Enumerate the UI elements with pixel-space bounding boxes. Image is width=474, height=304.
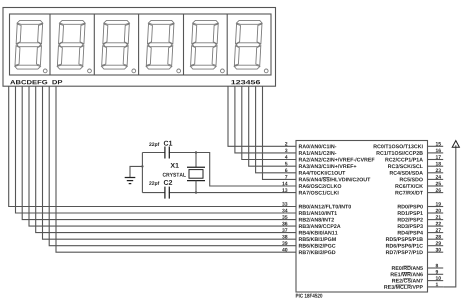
junction dot C1-crystal	[195, 151, 197, 153]
wire digit select 6 to RA5 pin 7	[263, 86, 297, 179]
7-seg digit 4	[146, 20, 180, 72]
digit cell divider 1	[49, 14, 51, 75]
wire C2 node to OSC1 pin 13	[142, 192, 296, 194]
7-seg digit 6	[234, 20, 268, 72]
digit cell divider 2	[93, 14, 95, 75]
capacitor C2	[165, 187, 169, 199]
wire segment B to RB1 pin 34	[16, 86, 297, 213]
pin 10 label RE2/CS/AN7 stub	[392, 276, 443, 282]
pin 23 label RC4/SDI/SDA stub	[390, 168, 443, 174]
pin 29 label RD6/PSP6/P1C stub	[386, 241, 443, 247]
7-seg digit 1	[15, 20, 47, 72]
digit cell divider 3	[138, 14, 140, 75]
wire digit select 5 to RA4 pin 6	[256, 86, 296, 173]
pin 8 label RE0/RD/AN5 stub	[392, 264, 443, 270]
pin 16 label RC1/T1OSI/CCP2B stub	[377, 149, 444, 155]
wire segment F to RB5 pin 38	[43, 86, 297, 239]
pin 2 label RA0/AN0/C1IN-	[285, 142, 336, 148]
pin 13 label RA7/OSC1/CLKI	[282, 188, 338, 194]
pin 9 label RE1/WR/AN6 stub	[391, 270, 444, 276]
wire segment E to RB4 pin 37	[36, 86, 296, 232]
pin 25 label RC6/TX/CK stub	[395, 182, 443, 188]
pin 24 label RC5/SDO stub	[400, 175, 443, 181]
pin 6 label RA4/T0CKI/C1OUT	[285, 168, 345, 174]
wire digit select 2 to RA1 pin 3	[235, 86, 296, 153]
wire left rail C1-C2	[141, 153, 143, 193]
digit cell divider 5	[226, 14, 228, 75]
pin 36 label RB3/AN9/CCP2A	[282, 222, 340, 228]
wire digit select 4 to RA3 pin 5	[249, 86, 296, 166]
pin 3 label RA1/AN1/C2IN-	[285, 149, 336, 155]
pin 15 label RC0/T1OSO/T13CKI stub	[374, 142, 444, 148]
pin 17 label RC2/CCP1/P1A stub	[385, 155, 443, 161]
label 123456	[231, 80, 260, 84]
pin 33 label RB0/AN12/FLT0/INT0	[282, 202, 351, 208]
pin 34 label RB1/AN10/INT1	[282, 209, 337, 215]
wire segment C to RB2 pin 35	[22, 86, 296, 219]
junction dot ground tap	[141, 165, 143, 167]
display digit area inner box	[10, 14, 272, 75]
pin 30 label RD7/PSP7/P1D stub	[386, 248, 443, 254]
pin 7 label RA5/AN4/SS/HLVDIN/C2OUT	[285, 175, 370, 181]
pin 37 label RB4/KBI0/AN11	[282, 228, 337, 234]
pin 38 label RB5/KBI1/PGM	[282, 235, 336, 241]
label ABCDEFG DP	[10, 80, 62, 84]
wire segment A to RB0 pin 33	[9, 86, 296, 206]
pin 22 label RD3/PSP3 stub	[398, 222, 443, 228]
crystal X1	[187, 153, 205, 193]
7-segment display module outer box	[3, 8, 276, 87]
wire segment D to RB3 pin 36	[29, 86, 296, 226]
pin 40 label RB7/KBI3/PGD	[282, 248, 335, 254]
wire digit select 1 to RA0 pin 2	[228, 86, 296, 146]
wire segment G to RB6 pin 39	[49, 86, 296, 246]
pin 28 label RD5/PSP5/P1B stub	[386, 235, 443, 241]
pin 35 label RB2/AN8/INT2	[282, 215, 334, 221]
pin 4 label RA2/AN2/C2IN+/VREF-/CVREF	[285, 155, 375, 161]
pin 18 label RC3/SCK/SCL stub	[388, 162, 443, 168]
7-seg digit 5	[190, 20, 224, 72]
wire MCLR pin 1 to VCC rail	[443, 145, 456, 287]
wire C1 node to OSC2 pin 14	[142, 153, 296, 187]
digit cell divider 4	[183, 14, 185, 75]
pin 39 label RB6/KBI2/PGC	[282, 241, 335, 247]
capacitor C1	[165, 147, 169, 159]
7-seg digit 2	[57, 20, 91, 72]
junction dot C2-crystal	[195, 191, 197, 193]
ground	[125, 166, 143, 183]
VCC power arrow	[452, 141, 459, 148]
pin 20 label RD1/PSP1 stub	[398, 209, 443, 215]
wire segment DP to RB7 pin 40	[56, 86, 296, 252]
PIC18F4520 U1 body	[296, 141, 428, 293]
pin 21 label RD2/PSP2 stub	[398, 215, 443, 221]
pin 19 label RD0/PSP0 stub	[398, 202, 443, 208]
7-seg digit 3	[102, 20, 136, 72]
pin 27 label RD4/PSP4 stub	[398, 228, 443, 234]
pin 14 label RA6/OSC2/CLKO	[282, 182, 341, 188]
pin 1 label RE3/MCLR/VPP stub	[384, 283, 443, 289]
pin 26 label RC7/RX/DT stub	[395, 188, 443, 194]
pin 5 label RA3/AN3/C1IN+/VREF+	[285, 162, 356, 168]
wire digit select 3 to RA2 pin 4	[242, 86, 296, 159]
